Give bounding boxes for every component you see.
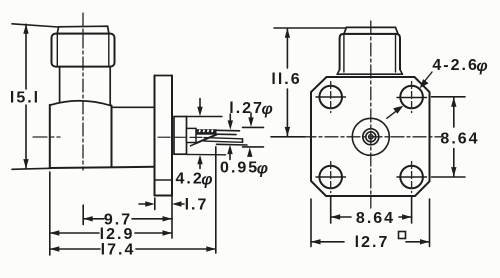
dimension 1.27 inner up arrow [229,152,231,160]
svg-text:4.2φ: 4.2φ [175,171,212,189]
svg-text:l7.4: l7.4 [101,242,136,259]
dimension 9.7 extension line at centerline [82,205,84,225]
coupling nut hex flat line left (side view) [56,35,58,66]
coupling nut bottom skirt (front view) [337,70,339,75]
dimension 11.6 top extension line [274,27,346,29]
svg-text:8.64: 8.64 [356,210,395,227]
mounting hole top-left [319,86,342,109]
svg-text:8.64: 8.64 [440,131,479,148]
dimension 11.6 line and arrowheads [286,28,288,68]
dimension 8.64 bottom line and arrowheads [331,216,351,218]
svg-text:l.27φ: l.27φ [229,100,272,118]
coupling nut hex flat line right (front view) [395,35,397,72]
taper diagonal from boss to stud end (side view) [196,135,217,144]
threaded stud 1.27 dia (side view, dark with thread ticks) [196,129,217,135]
dimension 12.9 line and arrowheads [50,232,99,234]
dimension 0.95 outer up arrow [247,147,252,157]
dimension 1.7 left extension line [154,198,156,210]
dimension 8.64 right top extension line [432,96,466,98]
tower bottom edge (side view) [155,195,173,197]
dimension 1.27 inner down arrow [229,114,231,121]
svg-text:ll.6: ll.6 [271,71,301,88]
outer reference line above pin [243,126,264,128]
coupling nut hex flat line right (side view) [108,35,110,66]
dimension 12.7 extension lines [310,199,312,247]
pin axis centerline (side view) [158,136,203,138]
svg-text:l5.l: l5.l [10,90,40,107]
outer reference line below pin [243,146,264,148]
svg-text:l.7: l.7 [185,197,209,214]
mounting hole bottom-right [400,166,423,189]
centerline of front view (horizontal) [303,136,443,138]
centerline of side-view connector axis (vertical) [82,13,84,170]
dimension 15.1 top extension line [12,24,58,27]
center contact rings (front view) [363,129,379,145]
svg-text:0.95φ: 0.95φ [220,160,268,178]
body block top intersection arc (side view) [50,101,112,106]
shared right extension line for 9.7 and 12.9 [171,197,173,239]
svg-text:l2.7: l2.7 [355,234,390,251]
mounting hole bottom-left [319,166,342,189]
stud bottom edge extension line [217,133,237,135]
flange plate edge-on (side view) [174,117,187,155]
svg-text:4-2.6φ: 4-2.6φ [432,57,487,75]
cylinder section below nut (side view) [59,67,61,102]
body block bottom edge (side view) [50,167,155,168]
dimension 15.1 bottom extension line [12,168,50,169]
dimension 17.4 line and arrowheads [50,248,100,250]
dimension 1.27 outer down arrow [250,113,252,119]
flange bottom extension line for 4.2 dim [187,153,226,155]
center insulator circle (front view) [352,118,389,155]
flange square with chamfered corners (front view) [311,77,430,196]
stud top edge extension line [217,129,240,132]
dimension 8.64 bottom extension lines [330,196,332,223]
coupling nut top cap (side view) [57,26,109,33]
tower divider line (side view) [155,179,173,181]
body shoulder line to tower (side view) [112,106,155,108]
body block right edge (side view) [111,106,113,108]
dimension 9.7 line and arrowheads [83,218,104,220]
coupling nut top cap (front view) [344,27,398,34]
dimension 4.2 up arrow to flange bottom [199,163,201,169]
dimension 12.7 line and arrowheads [311,241,344,243]
dimension 4.2 down arrow to flange top [199,99,201,109]
right extension line for 17.4 at pin [215,147,217,253]
dimension 8.64 right line and arrowheads [453,98,455,127]
mounting hole top-right [400,86,423,109]
lower reference line below pin [217,143,248,146]
pin axis centerline stub left of body [33,136,47,138]
tower / rear boss (side view) [155,75,173,77]
body block left edge (side view) [49,105,51,168]
leader arrow from center area to top-right hole [387,109,400,119]
coupling nut body (front view) [340,34,400,70]
second short taper diagonal (side view) [191,141,202,146]
coupling nut hex flat line left (front view) [343,35,345,72]
centerline of front view (vertical) [370,21,372,208]
dimension 1.7 arrows pointing inward [139,203,146,205]
dimension 8.64 right bottom extension line [432,176,466,178]
dimension 11.6 bottom extension line [271,136,305,138]
dimension 15.1 line and arrowheads [25,24,27,89]
flange top extension line for 4.2 dim [187,116,223,118]
contact pin 0.95 dia (side view) [204,138,243,139]
insulator boss behind pin (side view) [187,128,197,142]
coupling nut body (side view) [52,34,115,67]
shared left extension line for 12.9 and 17.4 [49,172,51,255]
svg-text:l2.9: l2.9 [100,226,135,243]
